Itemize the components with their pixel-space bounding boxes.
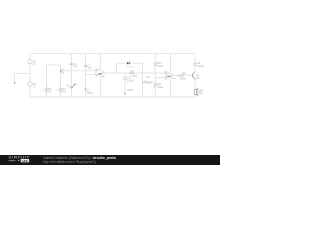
resistor R10 [154, 62, 157, 67]
wire R9 bridge [143, 81, 156, 83]
svg-text:e1: e1 [41, 89, 44, 91]
wire staple top [47, 64, 61, 66]
wire op-amp1 output [104, 72, 142, 74]
svg-text:R9: R9 [146, 76, 150, 79]
wire op-amp2 power bottom [170, 78, 172, 97]
wire staple left vertical [46, 65, 48, 97]
wire staple right vertical [59, 65, 61, 97]
svg-text:1uF: 1uF [73, 66, 78, 68]
wire op-amp1 power top [99, 54, 101, 70]
svg-text:1nF: 1nF [87, 68, 92, 70]
svg-text:R12: R12 [182, 72, 187, 75]
capacitor C3 [84, 65, 87, 66]
wire top rail [30, 53, 195, 55]
svg-text:1kΩ: 1kΩ [147, 81, 152, 84]
footer bar [0, 155, 220, 165]
wire output collector vertical [194, 54, 196, 72]
resistor R11 [154, 83, 157, 88]
resistor R3 [59, 88, 62, 93]
logo diode [18, 160, 20, 161]
svg-text:4Ω: 4Ω [62, 91, 65, 94]
svg-text:GND: GND [127, 89, 133, 92]
svg-text:100uF: 100uF [127, 79, 135, 82]
capacitor C8 [194, 63, 197, 65]
wiper arrow C4 [71, 84, 75, 89]
wire speaker to rail [194, 95, 196, 97]
speaker SP1 [194, 89, 196, 94]
wire op-amp2 power top [170, 54, 172, 73]
svg-text:10kΩ: 10kΩ [157, 86, 163, 89]
svg-text:10kΩ: 10kΩ [157, 65, 163, 68]
ground [14, 82, 16, 84]
ground under C5 [124, 93, 126, 95]
wire feedback left vertical [116, 63, 118, 73]
wire op-amp2 output [174, 74, 193, 76]
wire op-amp1 input stubs [61, 71, 96, 75]
wire op1 out to op2 [143, 72, 166, 74]
capacitor C4 polarized [70, 86, 73, 87]
voltage source V2 [28, 82, 32, 86]
capacitor C2 [70, 63, 73, 64]
resistor R8 [130, 72, 135, 74]
wire C3 branch vertical [85, 54, 87, 97]
wire ground tee [15, 74, 30, 83]
svg-text:1u: 1u [75, 83, 78, 86]
resistor R1 [45, 88, 48, 93]
transistor Q1 [191, 74, 193, 77]
diode D1 [127, 62, 129, 65]
svg-text:10uF: 10uF [87, 92, 93, 95]
voltage source V1 [28, 59, 32, 63]
logo resistor squiggle [9, 160, 16, 161]
capacitor C5 polarized [84, 89, 87, 91]
svg-text:6Ω: 6Ω [49, 91, 52, 94]
wire node right vertical [142, 63, 144, 97]
svg-text:npn: npn [196, 76, 201, 79]
resistor R12 [177, 74, 184, 77]
svg-text:8Ω: 8Ω [199, 92, 202, 95]
schematic canvas [0, 0, 220, 155]
svg-text:C4: C4 [66, 85, 70, 88]
op-amp OA2 [165, 71, 173, 79]
wire op-amp2 plus input [155, 77, 165, 79]
wire bottom rail [30, 96, 195, 98]
wire source branch vertical [29, 54, 31, 97]
potentiometer R2 wiper [61, 69, 64, 72]
svg-text:1V: 1V [33, 86, 36, 88]
svg-text:OA2: OA2 [171, 77, 176, 80]
resistor R9 [143, 81, 148, 83]
svg-text:100uF: 100uF [197, 65, 205, 68]
capacitor C5 polarized [124, 77, 127, 79]
wire cap C5 branch down [124, 73, 126, 93]
svg-text:100Ω: 100Ω [180, 78, 186, 81]
svg-text:R2: R2 [61, 72, 65, 75]
logo LAB box [21, 159, 30, 162]
wire emitter to speaker [194, 79, 196, 89]
wire op-amp1 power bottom [99, 76, 101, 97]
svg-text:D1 1N: D1 1N [127, 66, 134, 68]
op-amp OA1 [96, 68, 105, 76]
svg-text:5V: 5V [33, 64, 36, 66]
svg-text:e2: e2 [55, 89, 58, 91]
svg-text:4.7kΩ: 4.7kΩ [131, 75, 138, 78]
wire feedback top [117, 62, 143, 64]
wire divider vertical [154, 54, 156, 97]
wire C2 branch vertical [70, 54, 72, 97]
